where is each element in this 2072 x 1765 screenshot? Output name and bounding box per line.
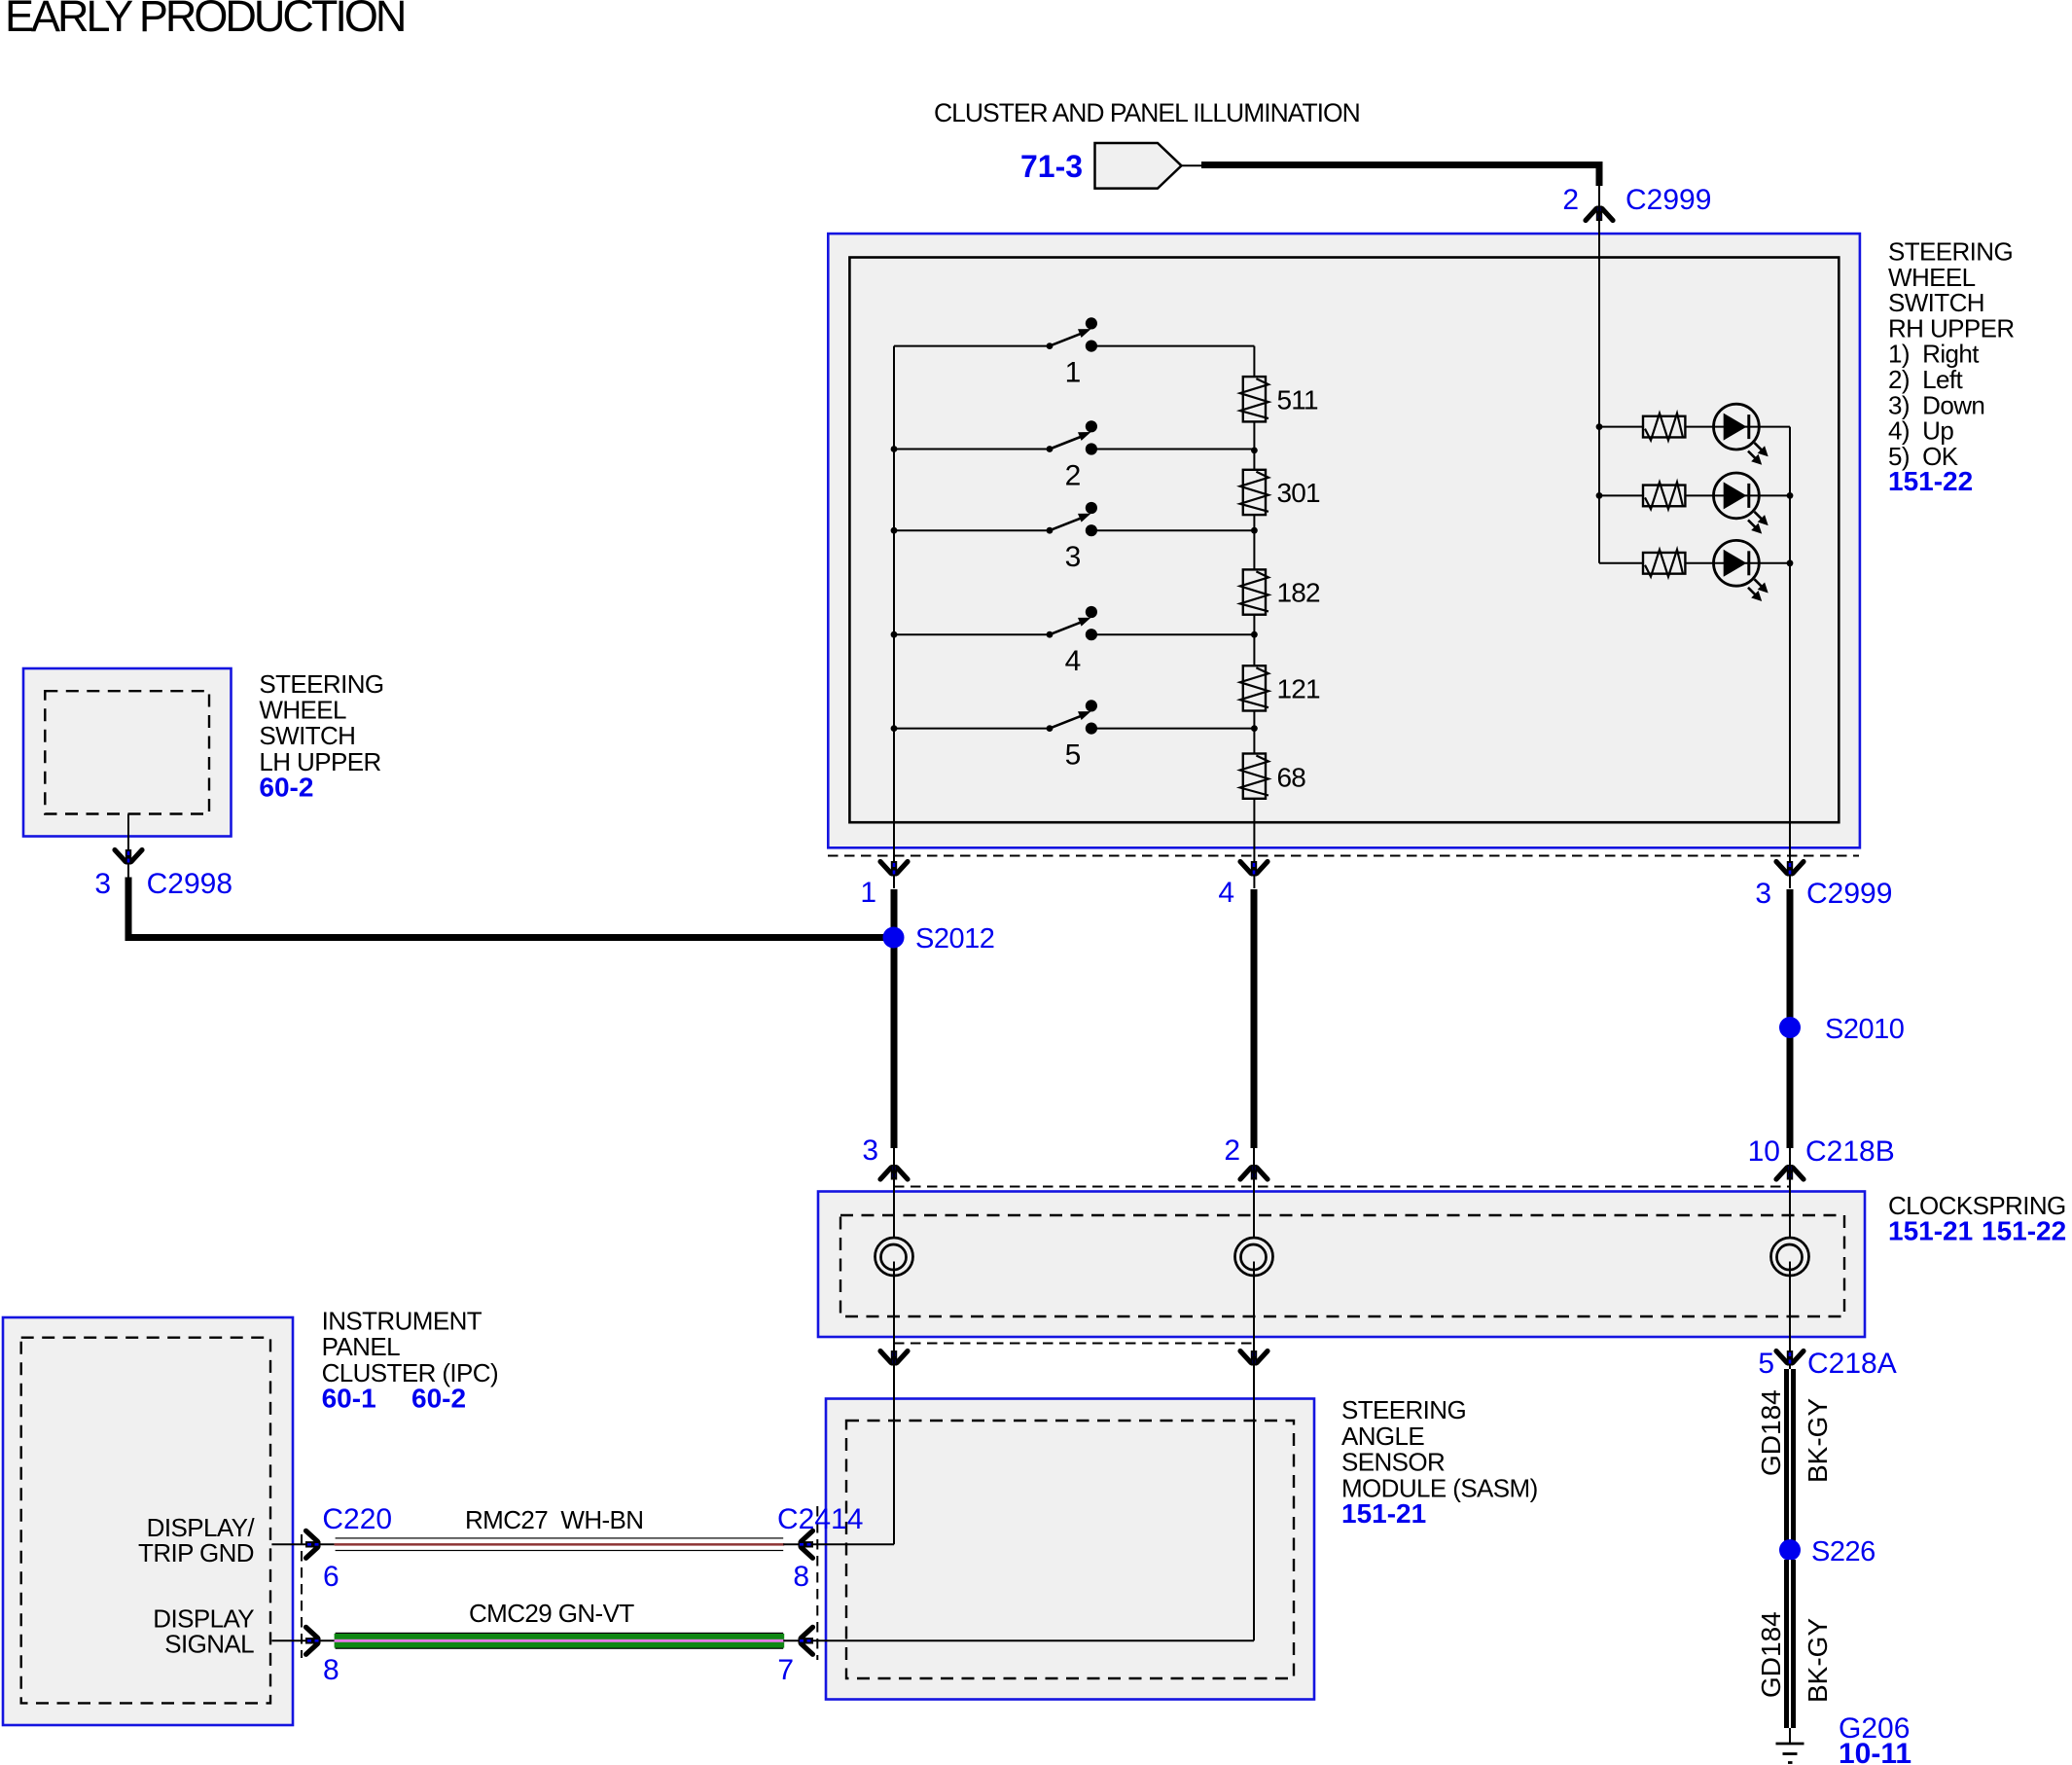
svg-text:71-3: 71-3 (1020, 149, 1083, 184)
connector arrow C218B pin 3 (880, 1165, 908, 1180)
switch 4 (894, 606, 1254, 677)
label STEERING WHEEL SWITCH RH UPPER (1888, 237, 2015, 497)
switch 1 (894, 317, 1254, 388)
svg-text:GD184: GD184 (1756, 1389, 1786, 1476)
svg-text:60-2: 60-2 (411, 1384, 466, 1414)
svg-text:151-22: 151-22 (1982, 1216, 2066, 1246)
connector dashed line C2999 (828, 855, 1859, 857)
svg-text:S2012: S2012 (915, 923, 994, 955)
svg-text:511: 511 (1277, 384, 1318, 414)
coil 3 (1771, 1238, 1809, 1276)
wire IPC pin 8 lead (271, 1639, 335, 1641)
wire from 71-3 to C2999 pin 2 (1182, 165, 1600, 187)
wire LH switch to C2998 (127, 814, 129, 879)
svg-text:6: 6 (323, 1561, 339, 1593)
box STEERING WHEEL SWITCH LH UPPER (23, 668, 232, 837)
title EARLY PRODUCTION (5, 0, 404, 41)
connector arrow C2999 pin 4 (1240, 861, 1268, 877)
resistor 68 (1240, 754, 1305, 799)
svg-text:S2010: S2010 (1825, 1014, 1904, 1045)
LH inner dashed box (45, 691, 209, 813)
switch 2 (894, 420, 1254, 491)
svg-text:C218A: C218A (1807, 1348, 1897, 1380)
label C218B pin 10 (1748, 1135, 1895, 1168)
wire SASM pin 7 lead (783, 1639, 826, 1641)
LED 3 with resistor (1599, 540, 1790, 601)
label C2414 (777, 1503, 863, 1535)
svg-text:SENSOR: SENSOR (1341, 1448, 1445, 1477)
wire into coil 1 (893, 1148, 895, 1238)
svg-text:ANGLE: ANGLE (1341, 1422, 1424, 1451)
switch 5 (894, 700, 1254, 771)
connector arrow C218A pin 5 (1776, 1351, 1804, 1366)
svg-text:60-1: 60-1 (322, 1384, 376, 1414)
svg-text:C2999: C2999 (1806, 878, 1892, 910)
connector arrow C220 pin 8 (305, 1627, 321, 1654)
svg-text:C2998: C2998 (147, 868, 232, 900)
label DISPLAY/TRIP GND (138, 1513, 255, 1567)
splice S2010 (1779, 1014, 1904, 1045)
wire to ground G206 (1789, 1728, 1791, 1744)
LED feed wire from pin 2 (1598, 186, 1600, 563)
connector dashed line C2414 (816, 1506, 818, 1660)
connector dashed line below clockspring (894, 1343, 1254, 1345)
SASM inner dashed box (846, 1421, 1294, 1678)
LED return junction dots (1787, 492, 1794, 566)
svg-text:BK-GY: BK-GY (1803, 1398, 1833, 1483)
switch common bus wire (893, 346, 895, 888)
connector arrow SASM pin a (880, 1351, 908, 1366)
label pin 5 C218A (1758, 1348, 1896, 1380)
label pin 8 left (323, 1654, 339, 1686)
wire coil 3 to C218A (1789, 1262, 1791, 1370)
svg-text:151-22: 151-22 (1888, 466, 1973, 496)
svg-text:INSTRUMENT: INSTRUMENT (322, 1307, 482, 1336)
clockspring inner dashed box (840, 1215, 1844, 1316)
label CMC29 GN-VT (469, 1599, 634, 1628)
LED 2 with resistor (1599, 473, 1790, 534)
label RMC27 WH-BN (465, 1505, 643, 1534)
svg-text:121: 121 (1277, 674, 1321, 704)
wire C2998 to S2012 (128, 878, 890, 938)
svg-text:CLUSTER AND PANEL ILLUMINATION: CLUSTER AND PANEL ILLUMINATION (934, 98, 1360, 127)
label pin 3 C2999 (1755, 878, 1892, 910)
svg-text:3: 3 (1755, 878, 1771, 910)
svg-text:WHEEL: WHEEL (259, 696, 346, 725)
wire coil 2 to SASM (1253, 1262, 1255, 1641)
connector arrow C2999 pin 1 (880, 861, 908, 877)
svg-text:5: 5 (1065, 739, 1082, 772)
IPC inner dashed box (21, 1338, 270, 1704)
connector arrow C218B pin 10 (1776, 1165, 1804, 1180)
label pin 8 right (793, 1561, 809, 1593)
connector arrow SASM pin b (1240, 1351, 1268, 1366)
svg-text:3: 3 (94, 868, 111, 900)
wire into coil 3 (1789, 1148, 1791, 1238)
wire pin 3 to C218B (1787, 889, 1794, 1148)
svg-text:S226: S226 (1811, 1536, 1876, 1567)
resistor 182 (1240, 569, 1320, 614)
svg-text:1: 1 (860, 877, 876, 909)
svg-text:EARLY PRODUCTION: EARLY PRODUCTION (5, 0, 404, 41)
svg-text:10-11: 10-11 (1839, 1738, 1911, 1765)
svg-text:301: 301 (1277, 478, 1321, 508)
svg-text:2: 2 (1065, 460, 1082, 492)
wire RMC27 WH-BN (335, 1537, 785, 1551)
connector arrow C220 pin 6 (305, 1531, 321, 1558)
SASM internal wire to pin 8 (826, 1543, 894, 1545)
svg-text:4: 4 (1065, 645, 1082, 677)
label G206 (1839, 1712, 1910, 1745)
resistor 121 (1240, 666, 1320, 710)
svg-text:PANEL: PANEL (322, 1332, 400, 1361)
connector arrow C2414 pin 7 (799, 1627, 814, 1654)
svg-text:151-21: 151-21 (1341, 1498, 1426, 1529)
label pin 2 C2999 (1562, 184, 1711, 216)
label GD184 lower (1756, 1611, 1786, 1698)
label BK-GY lower (1803, 1618, 1833, 1703)
label INSTRUMENT PANEL CLUSTER (322, 1307, 498, 1414)
svg-text:BK-GY: BK-GY (1803, 1618, 1833, 1703)
resistor chain wire (1253, 346, 1255, 888)
wire GD184 BK-GY upper (1784, 1369, 1796, 1541)
label C220 (322, 1503, 392, 1535)
connector arrow C2999 pin 2 (1586, 206, 1613, 222)
connector dashed line C220 (301, 1534, 303, 1658)
off-page connector flag 71-3 (1020, 143, 1182, 189)
svg-text:C2999: C2999 (1625, 184, 1711, 216)
label BK-GY upper (1803, 1398, 1833, 1483)
wire CMC29 GN-VT (335, 1633, 785, 1649)
label C218B pin 3 (862, 1135, 878, 1167)
connector arrow C218B pin 2 (1240, 1165, 1268, 1180)
label pin 7 right (777, 1654, 794, 1686)
svg-text:5: 5 (1758, 1348, 1774, 1380)
wire pin 4 to C218B (1251, 889, 1258, 1148)
svg-text:68: 68 (1277, 763, 1306, 793)
switch 3 (894, 502, 1254, 573)
label pin 1 (860, 877, 876, 909)
svg-text:C218B: C218B (1805, 1135, 1895, 1168)
wire into coil 2 (1253, 1148, 1255, 1238)
label pin 3 C2998 (94, 868, 232, 900)
resistor 511 (1240, 377, 1318, 421)
connector dashed line C218B (894, 1186, 1790, 1188)
connector arrow C2414 pin 8 (799, 1531, 814, 1558)
svg-text:STEERING: STEERING (259, 669, 383, 699)
LED return wire (1789, 427, 1791, 888)
svg-text:1: 1 (1065, 357, 1082, 389)
splice S2012 (883, 923, 995, 955)
wire coil 1 to SASM (893, 1262, 895, 1545)
label pin 4 (1218, 877, 1234, 909)
svg-text:2: 2 (1562, 184, 1579, 216)
ground G206 symbol (1776, 1744, 1804, 1763)
svg-text:C2414: C2414 (777, 1503, 863, 1535)
svg-text:2: 2 (1224, 1135, 1240, 1167)
box CLOCKSPRING (818, 1192, 1865, 1338)
wire GD184 BK-GY lower (1784, 1560, 1796, 1728)
label GD184 upper (1756, 1389, 1786, 1476)
SASM internal wire to pin 7 (826, 1639, 1254, 1641)
svg-text:151-21: 151-21 (1888, 1216, 1973, 1246)
wire pin 1 to C218B (891, 889, 898, 1148)
svg-text:TRIP GND: TRIP GND (138, 1538, 254, 1567)
LED feed junction dots (1596, 423, 1603, 499)
svg-text:GD184: GD184 (1756, 1611, 1786, 1698)
svg-text:SIGNAL: SIGNAL (164, 1630, 254, 1659)
svg-text:8: 8 (793, 1561, 809, 1593)
svg-text:C220: C220 (322, 1503, 392, 1535)
box STEERING ANGLE SENSOR MODULE (826, 1399, 1314, 1700)
connector arrow C2998 pin 3 (115, 849, 142, 865)
svg-text:8: 8 (323, 1654, 339, 1686)
label STEERING WHEEL SWITCH LH UPPER (259, 669, 383, 803)
wire IPC pin 6 lead (271, 1543, 335, 1545)
LED 1 with resistor (1599, 404, 1790, 465)
svg-text:SWITCH: SWITCH (259, 721, 355, 750)
label DISPLAY SIGNAL (153, 1604, 254, 1659)
svg-text:3: 3 (1065, 541, 1082, 573)
splice S226 (1779, 1536, 1876, 1567)
inner case box (849, 258, 1839, 823)
label C218B pin 2 (1224, 1135, 1240, 1167)
label STEERING ANGLE SENSOR MODULE (1341, 1395, 1538, 1529)
svg-text:182: 182 (1277, 578, 1321, 608)
svg-text:7: 7 (777, 1654, 794, 1686)
resistor 301 (1240, 470, 1320, 515)
svg-text:3: 3 (862, 1135, 878, 1167)
coil 1 (875, 1238, 913, 1276)
label CLOCKSPRING (1888, 1191, 2066, 1246)
svg-text:CMC29 GN-VT: CMC29 GN-VT (469, 1599, 634, 1628)
header CLUSTER AND PANEL ILLUMINATION (934, 98, 1360, 127)
chain junction dots (1251, 448, 1258, 732)
box INSTRUMENT PANEL CLUSTER (3, 1317, 293, 1725)
box STEERING WHEEL SWITCH RH UPPER (828, 234, 1860, 847)
connector arrow C2999 pin 3 (1776, 861, 1804, 877)
svg-text:60-2: 60-2 (259, 773, 313, 803)
coil 2 (1235, 1238, 1273, 1276)
label pin 6 (323, 1561, 339, 1593)
bus junction dots (891, 446, 898, 732)
label 10-11 (1839, 1738, 1911, 1765)
wire SASM pin 8 lead (783, 1543, 826, 1545)
svg-text:10: 10 (1748, 1135, 1780, 1168)
svg-text:4: 4 (1218, 877, 1234, 909)
svg-text:STEERING: STEERING (1341, 1395, 1466, 1424)
svg-text:RMC27 WH-BN: RMC27 WH-BN (465, 1505, 643, 1534)
